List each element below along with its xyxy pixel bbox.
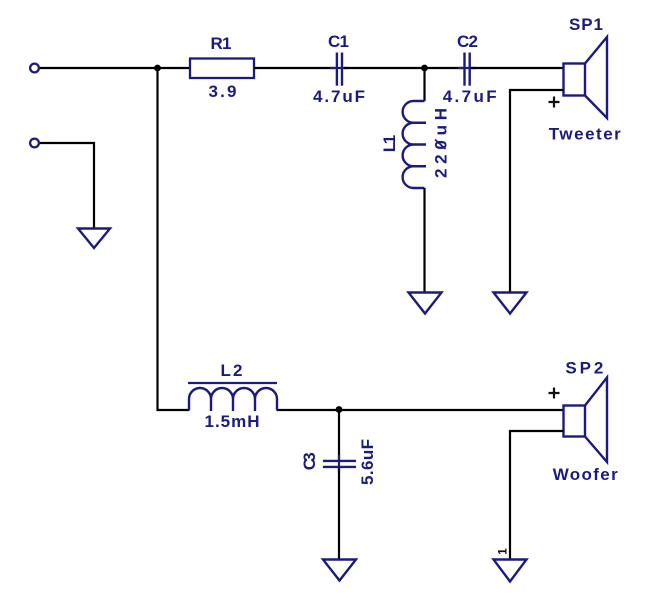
L1 value zero slash	[435, 140, 446, 150]
node B (junction at x=424.5,y=68)	[421, 65, 428, 72]
svg-text:C1: C1	[328, 32, 349, 51]
wire J2 to ground	[40, 143, 94, 229]
terminal J1 (top input)	[30, 64, 39, 73]
svg-text:1: 1	[496, 548, 510, 555]
wire L2 to SP2 through node C	[277, 409, 564, 411]
wire node B down to L1	[423, 68, 425, 101]
svg-text:Tweeter: Tweeter	[549, 125, 621, 144]
svg-text:4.7uF: 4.7uF	[443, 87, 497, 106]
speaker SP2	[564, 378, 608, 463]
ground (under L1)	[409, 293, 442, 314]
svg-text:SP1: SP1	[569, 15, 603, 34]
ground (input return)	[78, 229, 110, 249]
svg-text:C2: C2	[457, 32, 478, 51]
capacitor C1	[330, 53, 348, 86]
svg-text:5.6uF: 5.6uF	[358, 439, 377, 485]
L2 core bar	[188, 382, 277, 384]
resistor R1	[190, 59, 254, 79]
capacitor C2	[458, 53, 476, 86]
wire SP1 negative to ground	[510, 90, 564, 293]
node A (junction at x=157.5,y=68)	[154, 65, 161, 72]
wire R1 to C1	[254, 67, 335, 69]
svg-text:Woofer: Woofer	[553, 465, 618, 484]
speaker SP1	[564, 37, 608, 118]
svg-text:SP2: SP2	[565, 359, 603, 378]
wire C1 to C2 through node B	[344, 67, 463, 69]
svg-text:L1: L1	[380, 135, 399, 153]
wire input top: terminal J1 to node A and on to R1	[40, 67, 190, 69]
wire SP2 negative to ground	[510, 431, 564, 560]
SP2 plus sign	[549, 388, 560, 399]
SP1 plus sign	[549, 97, 560, 108]
ground (under SP1)	[494, 293, 527, 314]
svg-text:4.7uF: 4.7uF	[313, 87, 365, 106]
wire C3 to ground	[338, 468, 340, 560]
svg-text:3.9: 3.9	[209, 82, 237, 101]
terminal J2 (bottom input)	[30, 139, 39, 148]
wire node C down to C3	[338, 410, 340, 460]
svg-text:C3: C3	[300, 452, 319, 470]
wire node A down to L2 row	[158, 68, 190, 410]
svg-text:R1: R1	[211, 34, 232, 53]
wire L1 to ground	[423, 188, 425, 293]
inductor L1 (vertical coil)	[403, 101, 426, 188]
node C (junction at x=339,y=410)	[336, 406, 343, 413]
capacitor C3 (vertical orientation)	[323, 455, 356, 473]
inductor L2 (horizontal coil)	[189, 388, 277, 411]
svg-text:1.5mH: 1.5mH	[205, 412, 260, 431]
ground (under C3)	[323, 560, 356, 581]
ground (under SP2)	[494, 560, 527, 582]
wire C2 to SP1	[471, 67, 564, 69]
